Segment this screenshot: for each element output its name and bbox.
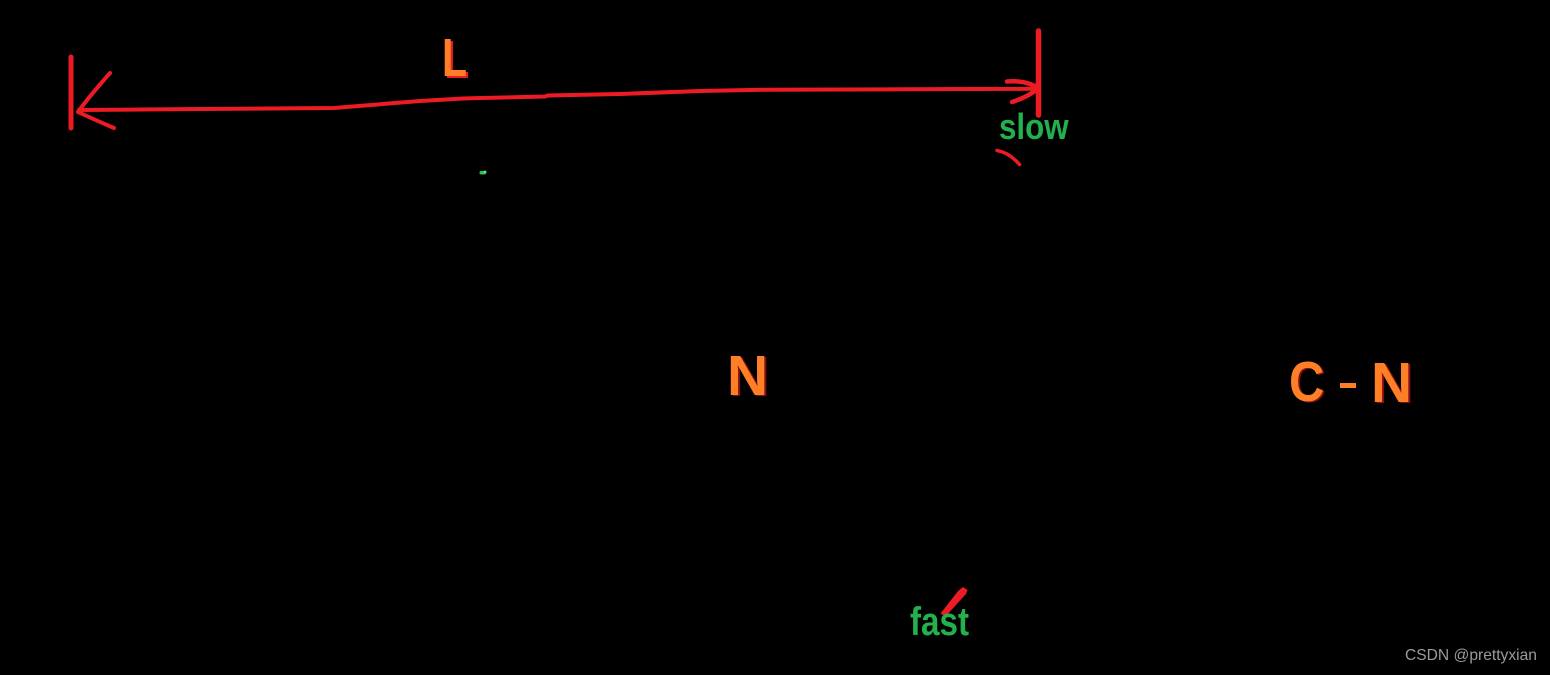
wire: right tick bar xyxy=(1036,31,1042,115)
label N (orange) xyxy=(727,348,768,405)
node: tiny green dash xyxy=(480,171,487,175)
label fast (green) xyxy=(910,603,969,643)
wire: main horizontal line xyxy=(79,89,1037,110)
label L (orange with red shadow) xyxy=(442,31,467,85)
label slow (green) xyxy=(999,109,1069,145)
wire: left arrowhead upper barb xyxy=(78,73,110,112)
watermark CSDN xyxy=(1405,647,1537,665)
wire: right arrowhead lower barb xyxy=(1012,89,1038,103)
label N2 (orange) xyxy=(1371,355,1412,412)
wire: left arrowhead lower barb xyxy=(78,112,114,128)
wire: right arrowhead upper barb xyxy=(1007,81,1039,88)
label dash between C and N (orange) xyxy=(1340,383,1356,388)
wire: left tick bar xyxy=(69,57,74,128)
label C (orange) xyxy=(1289,354,1324,411)
node: small red curve under slow xyxy=(997,151,1020,165)
node: red slash accent over fast xyxy=(941,587,968,617)
